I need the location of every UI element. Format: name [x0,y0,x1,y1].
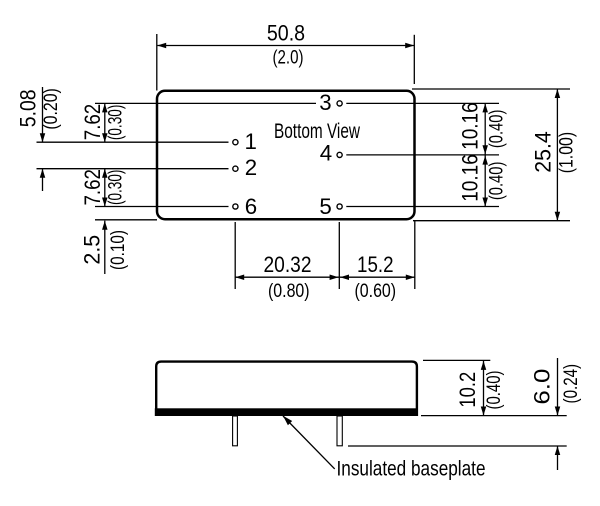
svg-text:3: 3 [319,90,331,115]
arrowhead 15.2 left [340,274,349,280]
svg-text:25.4: 25.4 [531,131,556,173]
svg-text:(0.20): (0.20) [41,88,62,129]
svg-text:20.32: 20.32 [264,252,312,277]
svg-text:Bottom View: Bottom View [274,119,360,143]
dimension line 10.2 [483,361,485,416]
svg-text:10.2: 10.2 [455,372,480,408]
arrowhead 7.62 lower bottom [102,198,108,207]
arrowhead 7.62 lower top [102,169,108,178]
arrowhead 10.16 upper bottom [482,145,488,154]
extension package top right [412,88,570,90]
wire pin3 row left [95,102,316,104]
svg-text:(0.80): (0.80) [268,281,310,302]
arrowhead 7.62 upper top [102,103,108,112]
arrowhead leader [283,416,292,425]
svg-text:(1.00): (1.00) [557,132,578,173]
wire pin6 row [95,206,229,208]
svg-text:7.62: 7.62 [80,169,105,205]
extension baseplate bottom [421,415,567,417]
arrowhead 50.8 left [157,43,166,49]
side view body [156,362,417,415]
extension 50.8 right [413,35,415,84]
svg-text:4: 4 [320,141,332,166]
dimension line 50.8 [157,45,414,47]
svg-text:6: 6 [245,194,257,219]
dimension line 25.4 [556,89,558,221]
pin circle 4 [337,152,342,157]
pin circle 5 [337,204,342,209]
arrowhead 6.0 lower [555,446,561,455]
wire pin2 row [37,168,229,170]
svg-text:2: 2 [245,155,257,180]
arrowhead 6.0 upper [555,407,561,416]
svg-text:(2.0): (2.0) [273,48,304,69]
svg-text:7.62: 7.62 [80,104,105,140]
arrowhead 2.5 [102,221,108,230]
arrowhead 5.08 lower [40,169,46,178]
pin circle 6 [233,204,238,209]
arrowhead 10.2 top [481,361,487,370]
pin circle 3 [337,101,342,106]
wire pin1 row [37,141,229,143]
arrowhead 10.16 lower bottom [482,198,488,207]
svg-text:15.2: 15.2 [357,252,394,277]
svg-text:5.08: 5.08 [16,89,41,127]
dimension line 5.08 upper segment [42,87,44,142]
svg-text:(0.30): (0.30) [106,170,127,206]
svg-text:(0.24): (0.24) [561,364,582,404]
extension below package right edge [414,221,416,289]
extension below pin1 column [234,222,236,289]
extension package bottom right [413,220,570,222]
wire pin5 row [346,206,499,208]
svg-text:6.0: 6.0 [530,369,555,405]
arrowhead 25.4 top [555,89,561,98]
svg-text:Insulated baseplate: Insulated baseplate [337,456,486,480]
wire pin4 row [346,154,499,156]
svg-text:2.5: 2.5 [80,235,105,265]
svg-text:(0.60): (0.60) [355,281,397,302]
arrowhead 50.8 right [405,43,414,49]
extension 50.8 left [156,34,158,91]
dimension line 10.16 [484,103,486,206]
arrowhead 5.08 upper [40,133,46,142]
pin circle 1 [233,140,238,145]
svg-text:(0.40): (0.40) [484,371,505,410]
leader line insulated baseplate [283,416,335,469]
arrowhead 10.16 lower top [482,156,488,165]
dimension line 5.08 lower segment [42,169,44,191]
svg-text:10.16: 10.16 [458,154,483,202]
extension package bottom left [95,219,157,221]
arrowhead 15.2 right [406,274,415,280]
side view pin right [337,416,342,446]
svg-text:(0.40): (0.40) [486,110,507,149]
dimension line 6.0 lower [557,446,559,470]
arrowhead 10.16 upper top [482,103,488,112]
dimension line 7.62 upper [104,103,106,142]
svg-text:10.16: 10.16 [458,102,483,150]
dimension line 2.5 [104,221,106,274]
arrowhead 10.2 bottom [481,407,487,416]
extension pin bottom [348,445,567,447]
wire pin3 row right [346,102,499,104]
extension below pin4 column [338,222,340,289]
arrowhead 20.32 left [235,274,244,280]
side view pin left [233,416,238,446]
package outline top view [157,91,415,219]
arrowhead 20.32 right [330,274,339,280]
arrowhead 7.62 upper bottom [102,133,108,142]
svg-text:50.8: 50.8 [267,21,305,46]
svg-text:5: 5 [319,194,331,219]
pin circle 2 [233,166,238,171]
dimension line 7.62 lower [104,169,106,207]
svg-text:(0.10): (0.10) [108,230,129,270]
dimension line 20.32 15.2 [235,276,415,278]
side view baseplate [155,408,418,416]
arrowhead 25.4 bottom [555,212,561,221]
svg-text:1: 1 [244,129,256,154]
svg-text:(0.40): (0.40) [486,162,507,201]
dimension line 6.0 upper [557,358,559,416]
svg-text:(0.30): (0.30) [106,105,127,140]
extension side top [423,359,490,361]
